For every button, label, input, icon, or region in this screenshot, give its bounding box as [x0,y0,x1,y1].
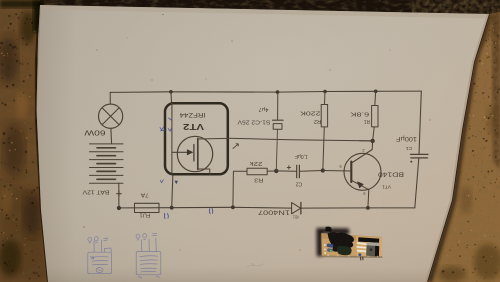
lamp HL1 60W [99,92,123,143]
pin mark 9 emitter [363,191,366,196]
node junction VT2 source / rail [170,206,174,210]
svg-text:S1-C2 25V: S1-C2 25V [237,119,271,125]
wire R2 bottom through gate line to base node [323,127,325,171]
pcb wire sticking above board [325,227,331,232]
svg-text:C2: C2 [296,180,303,186]
pcb pad row bottom [327,255,378,258]
wire VT2 drain from top rail into module box [170,92,173,104]
label 7A [140,192,148,198]
node junction emitter / rail [366,206,370,210]
svg-text:220K: 220K [300,109,321,115]
pcb board [321,233,382,257]
svg-text:R2: R2 [314,118,321,124]
node junction above R2 [323,90,327,94]
svg-text:100µF: 100µF [396,135,417,141]
wire top supply rail [110,91,421,92]
wire R1 top to rail [374,91,377,105]
label 1,0uF [295,153,308,159]
diode VD1 [292,202,301,214]
capacitor C1 plates [410,154,428,158]
svg-text:FU1: FU1 [140,212,151,218]
node junction battery / rail [117,206,121,210]
label R3 [254,176,263,182]
small assembled PCB lying on the paper [317,227,383,261]
pcb TO-220 metal tab [367,242,380,246]
label 60W [84,129,105,138]
C1 polarity dot [410,161,412,163]
svg-text:C1: C1 [405,145,412,151]
svg-text:BD140: BD140 [377,171,404,178]
transistor VT1 emitter lead [352,181,369,208]
wire R3 branch corner to bottom rail [233,171,247,207]
wire right rail lower [415,158,419,208]
resistor R2 [321,105,327,127]
transistor VT1 base bar [350,162,352,183]
pcb pins below edge [361,257,363,261]
fuse FU1 [135,203,160,212]
pin mark 2 collector [362,148,365,153]
transistor VT1 emitter arrowhead [357,181,364,188]
svg-text:6.8K: 6.8K [350,110,369,116]
dark blue arrowhead on source wire [175,181,178,185]
svg-text:IRFZ44: IRFZ44 [179,111,206,117]
blue pen tick near lamp [160,118,171,131]
schematic printed upside-down on the paper [82,90,428,268]
node junction collector / R1 / C1 wire [370,139,374,143]
svg-text:7A: 7A [140,192,148,198]
sketch B package outline [136,252,161,278]
blue scribble near FU1 [164,208,212,218]
label IRFZ44 [179,111,206,117]
pcb green speck [330,250,332,252]
blue tick below box [160,180,163,183]
svg-text:1,0µF: 1,0µF [295,153,308,159]
left wood band [0,0,48,282]
node junction above C3 [276,90,280,94]
MOSFET VT2 gate arrowhead [187,149,194,155]
label 22k [249,160,262,166]
sketch A pins [90,240,101,259]
node junction above R1 [374,90,378,94]
svg-text:R3: R3 [254,176,263,182]
wire VT2 source below box to rail [172,175,173,208]
pcb TO-220 white legs [357,243,367,251]
label C1 [405,145,412,151]
sketch B terminal circles [136,233,157,240]
wire collector node stub left [360,140,373,142]
node junction base / R2 / C2 [321,168,325,172]
label FU1 [140,212,151,218]
hand-drawn blue pinout sketches [88,233,161,278]
pcb blue dot bottom [358,253,361,256]
wire battery positive to bottom rail [118,183,120,208]
pcb dark green cap [337,246,352,255]
label BAT 12V [82,189,109,195]
svg-text:60W: 60W [84,129,105,138]
pcb bottom edge shadow [322,255,382,258]
label 4u7 [258,106,268,112]
label R1 [364,118,370,124]
dark pencil arrow near gate wire [233,144,238,149]
MOSFET VT2 symbol [172,103,228,174]
battery GB1 cells [90,144,124,183]
node junction R3 branch / rail [231,205,235,209]
pcb TO-220 body metal front [366,245,379,256]
svg-text:BAT 12V: BAT 12V [82,189,109,195]
shadow cast by paper edge on wood [427,14,492,282]
label 220K [300,109,321,115]
wire R2 top to rail [324,92,327,105]
pcb shadow left and top [317,228,350,257]
label BD140 [377,171,404,178]
transistor VT1 collector lead [352,141,372,163]
node junction R3 / C2 / base [274,169,278,173]
sketch B pins [142,238,157,251]
svg-text:22k: 22k [249,160,262,166]
svg-text:1N4007: 1N4007 [257,209,290,216]
dust specks on paper [83,14,430,251]
MOSFET module box VT2 [165,103,228,174]
wire R1 bottom to collector node [373,127,375,141]
resistor R1 [372,106,378,127]
C2 polarity plus [287,166,290,169]
label VT2 [182,122,204,131]
right wood band [427,8,500,282]
faint pencil squiggle bottom [247,264,264,268]
sketch A terminal circles [88,237,108,243]
capacitor C3 electrolytic plates [273,92,284,129]
svg-text:VD1: VD1 [293,214,299,219]
label C2 [296,180,303,186]
label S1-C2 25V [237,119,271,125]
capacitor C2 film [276,165,323,178]
svg-text:4µ7: 4µ7 [258,106,268,112]
wire VT2 gate line to collector node [228,138,373,141]
svg-text:VT1: VT1 [382,184,391,190]
label 6.8K [350,110,369,116]
wire base from node to bar [323,170,352,173]
pcb blue resistors [327,243,334,248]
resistor R3 [247,168,267,175]
svg-text:VT2: VT2 [182,122,204,131]
pcb black wiring mass [328,232,355,248]
pcb black bar above TO-220 [358,237,379,243]
label VD1 [293,214,299,219]
label R2 [314,118,321,124]
wire C3 lower lead down through gate line to node [276,129,277,171]
pcb pale solder pads left [324,244,326,254]
sketch A package outline [88,248,112,274]
wire right rail upper [419,91,421,154]
pin mark 6 base [339,164,342,169]
wire bottom return rail [119,206,415,209]
label 1N4007 [257,209,290,216]
battery plus sign [117,191,122,196]
transistor VT1 circle [344,153,381,190]
svg-text:R1: R1 [364,118,370,124]
node junction above VT2 [169,90,173,94]
label VT1 [382,184,391,190]
wire R3 to gate node [267,170,276,172]
label 100uF [396,135,417,141]
